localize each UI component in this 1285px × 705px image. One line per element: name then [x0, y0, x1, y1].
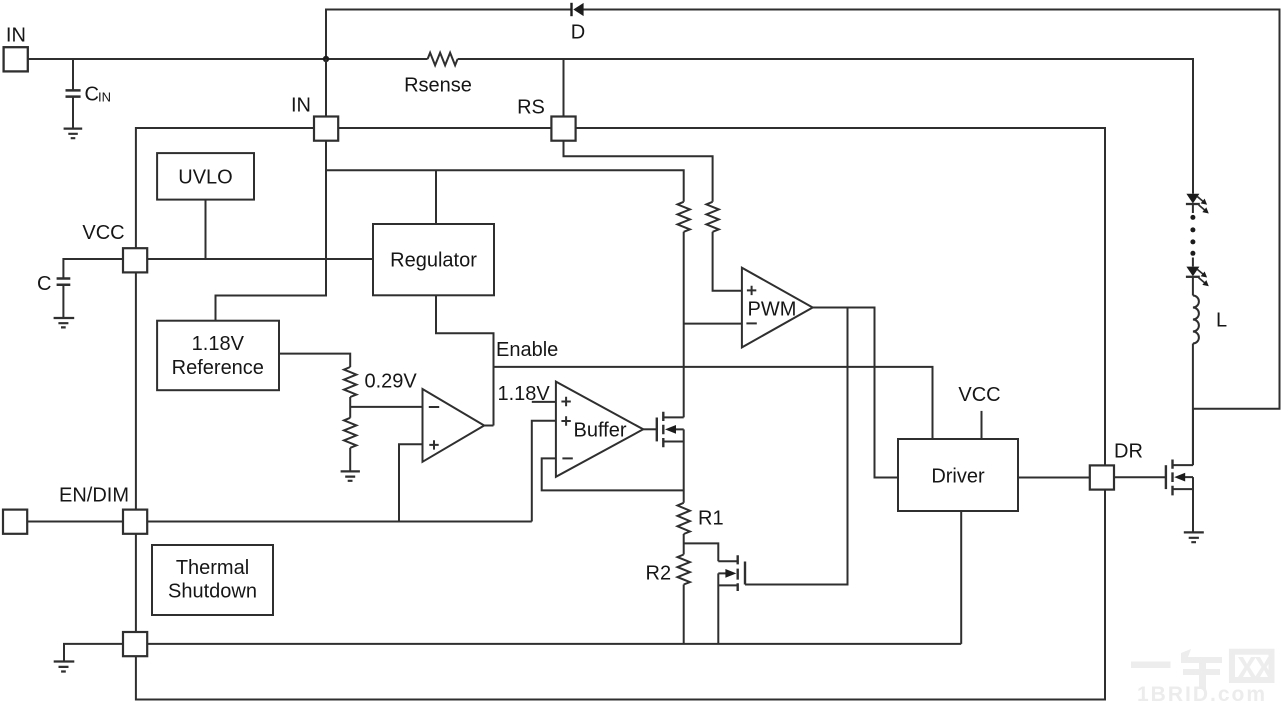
wire GND pin to ground symbol	[64, 644, 123, 661]
svg-text:R2: R2	[646, 563, 672, 585]
block Thermal Shutdown	[152, 545, 273, 615]
capacitor CIN	[66, 90, 81, 96]
svg-text:Shutdown: Shutdown	[168, 581, 257, 603]
svg-text:Buffer: Buffer	[574, 420, 627, 442]
ground (CIN)	[64, 129, 83, 139]
resistor Rsense	[428, 53, 458, 66]
svg-text:VCC: VCC	[82, 222, 124, 244]
label Thermal Shutdown	[168, 557, 257, 603]
resistor R1	[678, 503, 690, 534]
op-amp comparator	[423, 389, 485, 462]
wire IN pad drop to pin	[326, 59, 564, 117]
wire top feedback rail with diode gap	[326, 10, 1280, 409]
label PWM plus	[747, 286, 756, 295]
node junction at IN column	[323, 56, 329, 62]
wire divider tap to M2 drain	[684, 543, 719, 561]
svg-text:Driver: Driver	[931, 466, 985, 488]
ground (power MOSFET)	[1184, 532, 1204, 542]
ground (C)	[54, 318, 75, 327]
svg-text:DR: DR	[1114, 441, 1143, 463]
svg-text:RS: RS	[517, 97, 545, 119]
watermark logo	[1131, 649, 1275, 689]
diode D	[570, 3, 583, 16]
wire R2 to ground rail	[683, 585, 685, 644]
svg-text:Enable: Enable	[496, 339, 558, 361]
wire buffer output to gate	[643, 428, 657, 430]
node LED dots	[1190, 215, 1195, 256]
wire EN/DIM rail	[147, 521, 532, 523]
wire IN pin internal vertical to reference tap	[216, 141, 327, 321]
wire PWM minus input	[684, 323, 742, 325]
svg-text:IN: IN	[291, 95, 311, 117]
svg-text:0.29V: 0.29V	[365, 371, 418, 393]
ground (divider)	[341, 471, 360, 480]
pin IN	[314, 117, 338, 141]
wire comparator minus input	[350, 406, 422, 408]
svg-text:VCC: VCC	[958, 384, 1000, 406]
wire RS pin to right sense resistor	[564, 141, 713, 202]
label buffer minus	[562, 457, 572, 459]
inductor L	[1193, 296, 1199, 344]
transistor M2 (dimming NMOS, mirrored)	[718, 555, 745, 591]
wire driver to DR pin	[1018, 477, 1090, 479]
LED D1	[1186, 194, 1211, 216]
pin IN external pad	[4, 47, 28, 71]
transistor Q1 (external power NMOS)	[1166, 460, 1193, 496]
pin EN/DIM external pad	[3, 510, 27, 534]
block UVLO	[157, 153, 254, 200]
wire Enable rail	[494, 367, 933, 439]
LED D2	[1186, 258, 1211, 296]
label buffer plus1	[561, 397, 570, 406]
resistor (divider top 0.29V)	[344, 367, 356, 397]
wire M2 source to ground rail	[717, 573, 719, 644]
wire main input rail	[28, 59, 1193, 194]
wire comparator output	[484, 425, 493, 427]
block 1.18V Reference	[157, 321, 279, 391]
pin GND	[123, 632, 147, 656]
label buffer plus2	[561, 416, 570, 425]
wire divider mid	[349, 397, 351, 418]
wire DR pin to power MOSFET gate	[1114, 476, 1166, 478]
label CIN	[85, 84, 112, 106]
label 1.18V Reference	[172, 333, 264, 379]
svg-text:Thermal: Thermal	[176, 557, 249, 579]
wire divider to ground	[349, 448, 351, 471]
op-amp buffer	[556, 382, 643, 477]
label PWM minus	[746, 322, 756, 324]
label comparator plus	[429, 440, 438, 449]
svg-text:Rsense: Rsense	[404, 75, 472, 97]
wire driver VCC stub	[981, 411, 983, 439]
wire VCC rail to regulator	[147, 258, 373, 260]
svg-text:UVLO: UVLO	[178, 167, 232, 189]
resistor (divider bottom)	[344, 418, 356, 448]
wire C to ground	[62, 286, 64, 317]
svg-text:IN: IN	[6, 25, 26, 47]
wire UVLO stub	[205, 200, 207, 259]
wire ground rail	[147, 643, 961, 645]
svg-text:1BRID.com: 1BRID.com	[1137, 683, 1267, 705]
pin RS	[551, 117, 575, 141]
svg-text:EN/DIM: EN/DIM	[59, 485, 129, 507]
wire regulator output to enable column	[436, 295, 494, 425]
wire inductor to MOSFET drain	[1192, 344, 1194, 466]
svg-text:C: C	[85, 84, 99, 106]
wire LED return junction column	[1192, 409, 1194, 465]
svg-text:C: C	[37, 273, 51, 295]
wire PWM output to driver	[813, 308, 898, 478]
wire IN internal rail to left sense resistor	[326, 170, 684, 202]
wire EN/DIM pad to pin	[27, 521, 123, 523]
ground (GND pin)	[54, 662, 75, 672]
svg-text:1.18V: 1.18V	[192, 333, 245, 355]
wire CIN stub	[72, 59, 74, 90]
svg-text:Regulator: Regulator	[390, 250, 477, 272]
resistor (left sense divider)	[678, 202, 690, 232]
svg-text:L: L	[1216, 310, 1227, 332]
wire reference output to divider	[279, 354, 350, 367]
block Driver	[898, 439, 1018, 511]
svg-text:IN: IN	[98, 90, 111, 105]
IC boundary box	[136, 128, 1105, 700]
wire left resistor to NMOS drain	[683, 232, 685, 418]
wire R1 to R2	[683, 534, 685, 555]
resistor R2	[678, 555, 690, 585]
capacitor C	[57, 279, 71, 285]
wire M2 gate to PWM output	[745, 308, 848, 585]
wire buffer ref stub	[532, 401, 556, 403]
wire right resistor to PWM plus	[713, 232, 742, 291]
wire buffer minus feedback	[542, 458, 684, 490]
svg-text:R1: R1	[698, 508, 724, 530]
label comparator minus	[429, 406, 439, 408]
wire buffer plus2 input	[532, 421, 556, 522]
wire CIN to ground	[72, 98, 74, 128]
wire driver ground stub	[960, 511, 962, 644]
pin DR	[1090, 465, 1114, 489]
op-amp PWM	[742, 268, 813, 348]
svg-text:Reference: Reference	[172, 357, 264, 379]
wire VCC pin to capacitor C	[63, 259, 123, 278]
wire comparator plus input	[399, 444, 423, 521]
pin VCC	[123, 248, 147, 272]
wire power MOSFET source to ground	[1192, 477, 1194, 531]
block Regulator	[373, 224, 494, 295]
wire M1 source down to R1	[683, 429, 685, 502]
pin EN/DIM	[123, 510, 147, 534]
transistor M1 (sense NMOS)	[657, 412, 684, 448]
resistor (right sense divider)	[706, 202, 718, 232]
svg-text:D: D	[571, 22, 585, 44]
wire regulator top stub	[435, 170, 437, 224]
svg-text:PWM: PWM	[748, 299, 797, 321]
